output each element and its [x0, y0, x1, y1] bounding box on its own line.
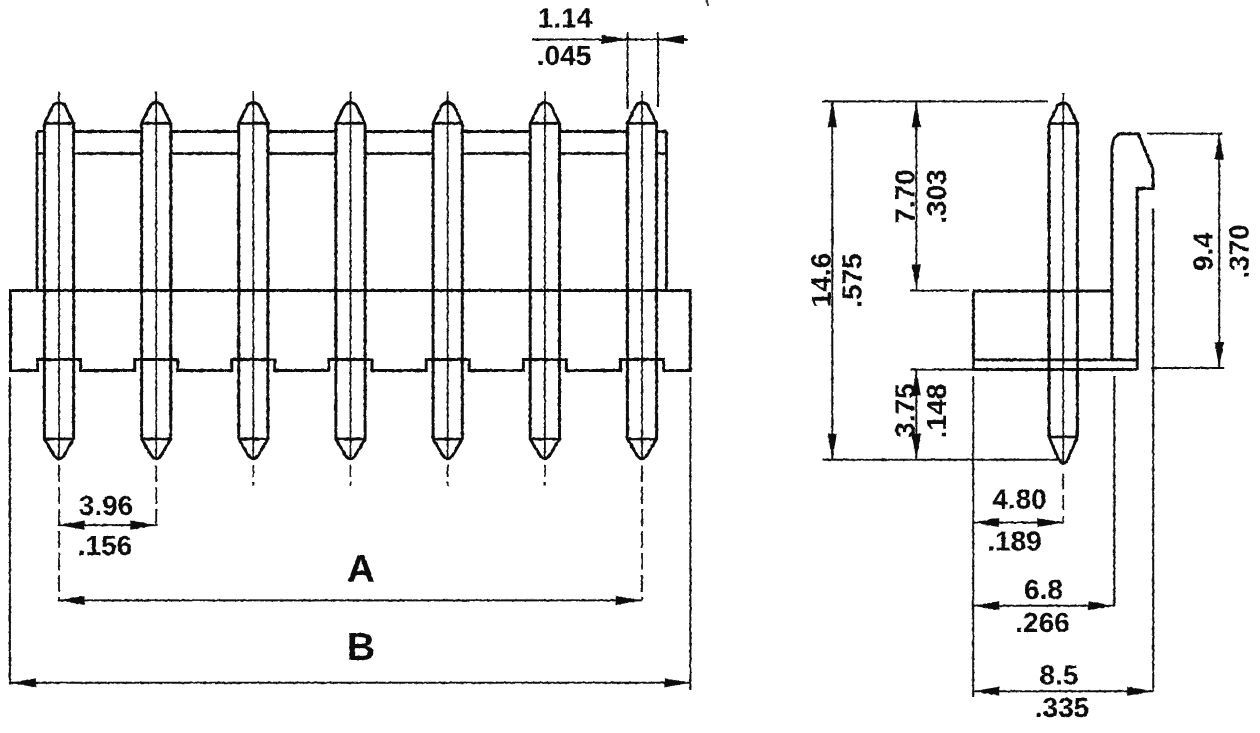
pin P7 bottom chamfer base line — [627, 438, 656, 441]
pin P1 body outline (front view) — [44, 103, 73, 459]
svg-text:7.70: 7.70 — [890, 169, 921, 224]
pin P6 center line lower dash — [544, 465, 546, 486]
svg-text:B: B — [347, 626, 375, 669]
pin P4 top chamfer base line — [336, 122, 365, 125]
pin P4 center line lower dash — [350, 465, 352, 486]
pin P5 body outline (front view) — [433, 103, 462, 459]
pin P7 top chamfer base line — [627, 122, 656, 125]
pin P3 center line lower dash — [252, 465, 254, 486]
dimension 6.8/.266 dimension line — [973, 601, 1114, 610]
dimension B extension line right — [689, 377, 691, 690]
svg-text:.189: .189 — [987, 526, 1042, 557]
header top rail right edge — [665, 132, 668, 291]
svg-text:.370: .370 — [1224, 224, 1255, 279]
pin P4 body outline (front view) — [336, 103, 365, 459]
svg-text:.266: .266 — [1015, 607, 1070, 638]
pin P3 bottom chamfer base line — [239, 438, 268, 441]
pin P6 body outline (front view) — [530, 103, 559, 459]
dimension 8.5/.335 right extension line — [1152, 209, 1154, 692]
pin P2 top chamfer base line — [142, 122, 171, 125]
pin P2 center line — [155, 92, 157, 461]
header top rail upper edge (front view) — [37, 130, 667, 133]
pin P6 bottom chamfer base line — [530, 438, 559, 441]
dimension 7.70/.303 dimension line — [912, 101, 921, 290]
dimension B extension line left — [9, 377, 11, 684]
housing body recess line (side view) — [973, 358, 1137, 361]
dimension B dimension line — [10, 678, 691, 687]
svg-text:4.80: 4.80 — [992, 484, 1047, 515]
svg-text:3.96: 3.96 — [79, 490, 134, 521]
pin P1 bottom chamfer base line — [44, 438, 73, 441]
dimension 9.4/.370 dimension line — [1215, 134, 1224, 368]
polarizing wall outline (side view) — [1112, 134, 1153, 370]
svg-text:.156: .156 — [78, 530, 133, 561]
svg-text:3.75: 3.75 — [890, 383, 921, 438]
dimension 9.4/.370 bottom extension line — [1151, 367, 1224, 369]
pin center line lower dashes (side view) — [1062, 474, 1064, 523]
pin P3 body outline (front view) — [239, 103, 268, 459]
svg-text:6.8: 6.8 — [1024, 574, 1063, 605]
pin P4 center line — [350, 92, 352, 461]
pin P7 center line — [641, 92, 643, 461]
top extension line (pin tip level) — [823, 100, 1049, 102]
bottom extension line (pin bottom level) — [823, 459, 1063, 461]
dimension 14.6/.575 dimension line — [828, 101, 837, 459]
pin outline (side view) — [1049, 103, 1077, 463]
housing body (front view) — [11, 291, 691, 371]
header top rail left edge — [36, 132, 39, 291]
pin P2 bottom chamfer base line — [142, 438, 171, 441]
dimension 3.75/.148 dimension line — [912, 370, 921, 460]
pin P7 center extension line — [641, 465, 643, 600]
svg-text:9.4: 9.4 — [1188, 232, 1219, 271]
svg-text:.045: .045 — [537, 40, 592, 71]
pin P5 top chamfer base line — [433, 122, 462, 125]
pin P1 top chamfer base line — [44, 122, 73, 125]
header top rail lower edge (front view) — [37, 152, 667, 155]
svg-text:.575: .575 — [837, 253, 868, 308]
pin P2 center extension line — [155, 465, 157, 527]
pin P6 center line — [544, 92, 546, 461]
pin P5 center line — [447, 92, 449, 461]
body top extension line (side view) — [910, 290, 969, 292]
pin P4 bottom chamfer base line — [336, 438, 365, 441]
pin P7 body outline (front view) — [627, 103, 656, 459]
pin P1 center line — [58, 92, 60, 461]
pin P5 center line lower dash — [447, 465, 449, 486]
dimension 1.14/.045 extension line right — [657, 32, 659, 107]
dimension A dimension line — [59, 596, 642, 605]
pin P5 bottom chamfer base line — [433, 438, 462, 441]
svg-text:.303: .303 — [921, 169, 952, 224]
svg-text:14.6: 14.6 — [806, 253, 837, 308]
svg-text:.335: .335 — [1035, 692, 1090, 723]
pin P3 top chamfer base line — [239, 122, 268, 125]
svg-text:A: A — [347, 548, 375, 591]
dimension 4.80/.189 dimension line — [973, 518, 1063, 527]
dimension 6.8/.266 right extension line — [1113, 376, 1115, 606]
stray scan tick — [706, 0, 709, 6]
dimension 8.5/.335 dimension line — [973, 687, 1153, 696]
pin P1 center extension line — [58, 465, 60, 600]
housing body left edge (side view) — [972, 291, 975, 370]
svg-text:1.14: 1.14 — [538, 3, 593, 34]
pin center line (side view) — [1062, 93, 1064, 465]
svg-text:8.5: 8.5 — [1040, 660, 1079, 691]
svg-text:.148: .148 — [921, 384, 952, 439]
lower-left extension line (side view, body left) — [972, 376, 974, 697]
housing body bottom edge (side view) — [973, 368, 1137, 371]
pin top chamfer base line (side view) — [1049, 122, 1077, 125]
pin P3 center line — [252, 92, 254, 461]
dimension 3.96/.156 dimension line — [59, 521, 157, 530]
dimension 9.4/.370 top extension line — [1147, 133, 1222, 135]
pin P2 body outline (front view) — [142, 103, 171, 459]
body bottom extension line (side view) — [910, 369, 973, 371]
dimension 1.14/.045 dimension line with inward arrows — [532, 35, 688, 44]
housing body top edge (side view) — [973, 290, 1112, 293]
pin bottom chamfer base line (side view) — [1049, 436, 1077, 439]
pin P6 top chamfer base line — [530, 122, 559, 125]
dimension 1.14/.045 extension line left — [627, 32, 629, 109]
